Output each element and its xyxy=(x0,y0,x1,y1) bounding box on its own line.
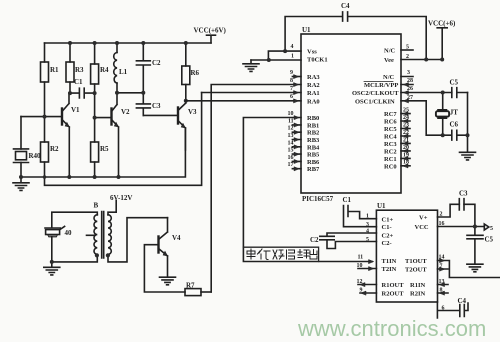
wire serial label box xyxy=(243,247,318,261)
node V3col-R6 xyxy=(184,99,188,103)
capacitor C1 (MAX232) xyxy=(344,206,377,227)
svg-text:T0CK1: T0CK1 xyxy=(307,57,328,64)
resistor R1 xyxy=(41,43,49,117)
pin stubs RB1-RB7 xyxy=(292,125,301,169)
svg-text:VCC(+6V): VCC(+6V) xyxy=(194,27,227,35)
svg-text:R40: R40 xyxy=(29,152,42,160)
svg-text:4: 4 xyxy=(366,228,369,234)
svg-text:16: 16 xyxy=(439,221,445,227)
labels U2 MAX232 xyxy=(310,190,494,312)
svg-text:5: 5 xyxy=(406,45,409,51)
svg-text:12: 12 xyxy=(288,126,294,132)
svg-text:RC0: RC0 xyxy=(384,163,397,170)
resistor R4 xyxy=(91,43,99,93)
svg-text:U1: U1 xyxy=(377,202,386,210)
svg-text:RC5: RC5 xyxy=(384,126,397,133)
ground at U1 left xyxy=(243,60,259,71)
node rail-R4 xyxy=(93,41,97,45)
svg-text:27: 27 xyxy=(407,95,413,101)
svg-text:5: 5 xyxy=(490,226,493,232)
node dots left circuit xyxy=(19,41,188,179)
svg-text:14: 14 xyxy=(439,255,445,261)
node V2base-R4R5 xyxy=(93,116,97,120)
svg-text:6: 6 xyxy=(442,306,445,312)
svg-text:9: 9 xyxy=(290,70,293,76)
svg-text:L1: L1 xyxy=(119,68,128,76)
resistor R7 xyxy=(185,289,211,296)
svg-text:11: 11 xyxy=(288,118,294,124)
resistor R6 xyxy=(182,43,190,101)
svg-text:V​ss: V​ss xyxy=(307,49,317,56)
capacitor C3 xyxy=(459,199,464,210)
wire primary bottom xyxy=(52,254,98,262)
svg-text:V2: V2 xyxy=(121,108,130,116)
wire OSC2 to C5 xyxy=(401,92,468,94)
wire T1OUT to edge xyxy=(438,261,500,278)
svg-text:RB6: RB6 xyxy=(307,159,320,166)
svg-text:C2: C2 xyxy=(152,59,161,67)
svg-text:C6: C6 xyxy=(450,121,459,129)
svg-text:RB0: RB0 xyxy=(307,115,319,122)
svg-text:1: 1 xyxy=(291,54,294,60)
svg-text:22: 22 xyxy=(403,130,409,136)
wire F40 bottom xyxy=(51,237,53,262)
node VCC-C3 xyxy=(473,225,477,229)
svg-text:JT: JT xyxy=(450,109,459,117)
node dots MAX232 area xyxy=(473,225,477,229)
wire RA1 xyxy=(202,92,301,94)
resistor R3 xyxy=(66,43,74,93)
svg-text:R2IN: R2IN xyxy=(410,290,425,297)
wire V+ to C3 xyxy=(438,204,475,226)
svg-text:5: 5 xyxy=(366,237,369,243)
svg-text:13: 13 xyxy=(439,279,445,285)
svg-text:8: 8 xyxy=(290,78,293,84)
node C1-R4 xyxy=(93,91,97,95)
transistor V2 xyxy=(112,93,119,177)
capacitor C4 xyxy=(285,12,426,60)
svg-text:VCC(+6): VCC(+6) xyxy=(428,20,456,28)
node rail-R2cross xyxy=(43,175,47,179)
capacitor C6 xyxy=(443,130,468,140)
svg-text:OSC2/CLKOUT: OSC2/CLKOUT xyxy=(352,90,399,97)
node rail-R6 xyxy=(184,41,188,45)
labels left circuit xyxy=(29,27,227,161)
pin arrows MAX232 xyxy=(360,259,445,296)
svg-text:RC6: RC6 xyxy=(384,119,397,126)
wire V- pin6 and capacitor C4 (bottom right) xyxy=(437,302,468,318)
svg-text:R5: R5 xyxy=(100,145,109,153)
node OSC2-JT xyxy=(441,91,445,95)
svg-text:VCC: VCC xyxy=(415,224,429,231)
crystal JT xyxy=(436,93,449,136)
wire top supply rail left circuit xyxy=(45,42,212,44)
pin stubs T2OUT R1IN R2IN xyxy=(438,269,449,293)
inductor L1 xyxy=(114,43,117,93)
svg-text:RA3: RA3 xyxy=(307,74,320,81)
svg-text:40: 40 xyxy=(65,229,73,237)
capacitor C5 xyxy=(452,88,457,98)
node polarity dot secondary xyxy=(106,253,110,257)
VCC(+6V) power flag xyxy=(207,35,216,43)
svg-text:RB4: RB4 xyxy=(307,144,320,151)
svg-text:9: 9 xyxy=(360,287,363,293)
svg-text:RB7: RB7 xyxy=(307,166,320,173)
svg-text:RB1: RB1 xyxy=(307,122,319,129)
svg-text:C1: C1 xyxy=(343,196,352,204)
svg-text:2: 2 xyxy=(406,54,409,60)
svg-text:RA1: RA1 xyxy=(307,90,320,97)
capacitor C3 xyxy=(136,93,178,116)
ground under F40 xyxy=(44,262,60,275)
svg-text:8: 8 xyxy=(440,288,443,294)
ground crystal network xyxy=(460,135,476,160)
svg-text:V1: V1 xyxy=(71,106,80,114)
node C1-R3 xyxy=(68,91,72,95)
crystal R40 (receiver transducer) xyxy=(14,117,29,177)
wire RB0 to T1IN xyxy=(243,118,372,262)
svg-text:2: 2 xyxy=(440,211,443,217)
transistor V3 xyxy=(178,101,186,150)
ground under C5 xyxy=(467,239,483,272)
svg-text:www.cntronics.com: www.cntronics.com xyxy=(297,316,486,341)
svg-text:V​ee: V​ee xyxy=(384,57,394,64)
resistor R2 xyxy=(41,117,49,177)
svg-text:13: 13 xyxy=(288,133,294,139)
svg-text:10: 10 xyxy=(288,111,294,117)
node rail-gnd xyxy=(19,175,23,179)
svg-text:PIC16C57: PIC16C57 xyxy=(302,195,334,203)
wire R2-bottom to RA1 riser xyxy=(45,93,202,186)
resistor R5 xyxy=(91,93,99,177)
svg-text:V+: V+ xyxy=(419,214,428,221)
svg-text:RB2: RB2 xyxy=(307,130,319,137)
svg-text:RC4: RC4 xyxy=(384,134,397,141)
transformer B primary winding xyxy=(94,215,97,255)
node F40-ground junction xyxy=(50,260,54,264)
svg-text:R1IN: R1IN xyxy=(410,282,425,289)
wire secondary bottom to V4 collector xyxy=(108,218,168,262)
svg-text:R4: R4 xyxy=(100,66,109,74)
svg-text:4: 4 xyxy=(291,44,294,50)
pin stub N/C5 and wire Vdd pin2 to VCC xyxy=(401,49,413,51)
node Vss-C4 xyxy=(283,49,287,53)
svg-text:R1: R1 xyxy=(50,66,59,74)
svg-text:11: 11 xyxy=(358,255,364,261)
svg-text:R2: R2 xyxy=(50,145,59,153)
svg-text:N/C: N/C xyxy=(383,74,395,81)
svg-text:20: 20 xyxy=(403,145,409,151)
svg-text:C1: C1 xyxy=(74,78,83,86)
svg-text:19: 19 xyxy=(403,152,409,158)
node R1-R2-base xyxy=(43,115,47,119)
svg-text:18: 18 xyxy=(403,160,409,166)
svg-text:7: 7 xyxy=(440,263,443,269)
node rail-V1e xyxy=(67,175,71,179)
transistor V4 xyxy=(159,218,168,256)
svg-text:12: 12 xyxy=(357,279,363,285)
svg-text:C2: C2 xyxy=(310,236,319,244)
node dots U1 area xyxy=(267,49,470,137)
svg-text:C1-: C1- xyxy=(382,224,392,231)
svg-text:RA2: RA2 xyxy=(307,82,320,89)
wire RA0 from V3 collector xyxy=(186,100,301,102)
pin stub N/C3 and MCLR xyxy=(401,77,413,85)
svg-text:B: B xyxy=(94,202,99,210)
svg-text:MCLR/VPP: MCLR/VPP xyxy=(364,82,398,89)
svg-text:16: 16 xyxy=(288,155,294,161)
node rail-R3 xyxy=(68,41,72,45)
node rail-R5 xyxy=(93,175,97,179)
svg-text:C4: C4 xyxy=(341,2,350,10)
svg-text:R2OUT: R2OUT xyxy=(382,290,405,297)
transducer F40 xyxy=(45,226,65,237)
wire C5-C6 right branch xyxy=(467,93,469,136)
svg-text:RC7: RC7 xyxy=(384,111,397,118)
node L1-V2col xyxy=(115,91,119,95)
capacitor C1 xyxy=(70,88,95,98)
ground near left bottom xyxy=(13,177,29,190)
svg-text:OSC1/CLKIN: OSC1/CLKIN xyxy=(355,98,395,105)
wire L1-C2 link xyxy=(117,92,143,94)
svg-text:RC3: RC3 xyxy=(384,141,397,148)
svg-text:3: 3 xyxy=(407,70,410,76)
pin arrows U1 left xyxy=(294,75,300,171)
svg-text:23: 23 xyxy=(403,122,409,128)
node JT-C6 xyxy=(441,133,445,137)
svg-text:17: 17 xyxy=(288,162,294,168)
wire RA2 to R7 riser xyxy=(211,85,301,293)
pin stubs RC7-RC0 xyxy=(401,114,410,166)
wire OSC1 loop xyxy=(401,101,443,135)
capacitor C2 xyxy=(136,43,150,93)
wire primary top to F40 xyxy=(52,212,98,227)
svg-text:RA0: RA0 xyxy=(307,98,320,105)
op-amp U1 PIC16C57 body xyxy=(301,34,401,193)
svg-text:C2-: C2- xyxy=(382,240,392,247)
op-amp U2 MAX232 body xyxy=(376,210,437,302)
node T0CK1 left xyxy=(267,58,271,62)
svg-text:RC1: RC1 xyxy=(384,156,397,163)
labels U1 xyxy=(288,2,459,203)
svg-text:21: 21 xyxy=(403,137,409,143)
svg-text:6: 6 xyxy=(290,94,293,100)
svg-text:C4: C4 xyxy=(458,297,467,305)
pin arrows U1 right xyxy=(403,83,409,168)
wire T0CK1 pin1 xyxy=(251,59,301,61)
svg-text:24: 24 xyxy=(403,115,409,121)
transformer B core xyxy=(102,212,104,259)
svg-text:R3: R3 xyxy=(75,66,84,74)
pin stubs R1OUT R2OUT xyxy=(358,285,376,294)
svg-text:15: 15 xyxy=(288,148,294,154)
svg-text:6V-12V: 6V-12V xyxy=(110,194,132,202)
svg-text:10: 10 xyxy=(357,263,363,269)
svg-text:R7: R7 xyxy=(186,282,195,290)
node C2-C3 xyxy=(141,91,145,95)
svg-text:7: 7 xyxy=(290,86,293,92)
svg-text:T2OUT: T2OUT xyxy=(405,266,427,273)
transistor V1 xyxy=(62,93,69,177)
svg-text:V4: V4 xyxy=(172,234,181,242)
svg-text:RB5: RB5 xyxy=(307,152,320,159)
node rail-C2 xyxy=(141,41,145,45)
node 串行数据输出 serial data output label (CJK approximated strokes) xyxy=(247,249,317,260)
svg-text:U1: U1 xyxy=(302,26,311,34)
svg-text:3: 3 xyxy=(366,222,369,228)
node polarity dot primary xyxy=(95,253,99,257)
svg-text:R1OUT: R1OUT xyxy=(382,282,405,289)
svg-text:RB3: RB3 xyxy=(307,137,320,144)
svg-text:C3: C3 xyxy=(459,190,468,198)
ground under V4 xyxy=(160,256,176,285)
svg-text:C1+: C1+ xyxy=(382,217,394,224)
node C6-gnd xyxy=(466,133,470,137)
svg-text:T1OUT: T1OUT xyxy=(405,258,427,265)
wire T2IN stub xyxy=(358,268,376,270)
svg-text:N/C: N/C xyxy=(384,48,396,55)
svg-text:14: 14 xyxy=(288,140,294,146)
svg-text:C3: C3 xyxy=(152,102,161,110)
node rail-V2e xyxy=(117,175,121,179)
node Vdd-VCC xyxy=(440,58,444,62)
wire VCC to +5 xyxy=(438,226,485,228)
svg-text:RC2: RC2 xyxy=(384,148,397,155)
node rail-L1 xyxy=(115,41,119,45)
svg-text:26: 26 xyxy=(407,86,413,92)
svg-text:C2+: C2+ xyxy=(382,232,394,239)
svg-text:T2IN: T2IN xyxy=(382,266,397,273)
wire V4 base to R7 xyxy=(144,245,185,292)
wire secondary top to 6V-12V xyxy=(108,201,116,215)
node Vdd-C4 xyxy=(424,58,428,62)
svg-text:C5: C5 xyxy=(485,236,494,244)
wire V2 base line xyxy=(95,117,112,119)
power flag +5 xyxy=(484,224,489,230)
svg-text:R6: R6 xyxy=(191,69,200,77)
pin stub RA3 xyxy=(292,76,301,78)
capacitor C5 (bottom right) xyxy=(467,227,483,239)
svg-text:T1IN: T1IN xyxy=(382,258,397,265)
svg-text:C5: C5 xyxy=(450,79,459,87)
svg-text:1: 1 xyxy=(366,214,369,220)
transformer B secondary winding xyxy=(108,215,111,255)
svg-text:28: 28 xyxy=(407,78,413,84)
labels transmitter xyxy=(65,194,196,290)
wire V1 base line xyxy=(21,116,62,118)
wire bottom ground rail left circuit xyxy=(20,128,185,177)
capacitor C2 (MAX232) xyxy=(320,233,377,249)
svg-text:25: 25 xyxy=(403,108,409,114)
wire Vss pin4 xyxy=(268,51,301,60)
svg-text:V3: V3 xyxy=(188,108,197,116)
